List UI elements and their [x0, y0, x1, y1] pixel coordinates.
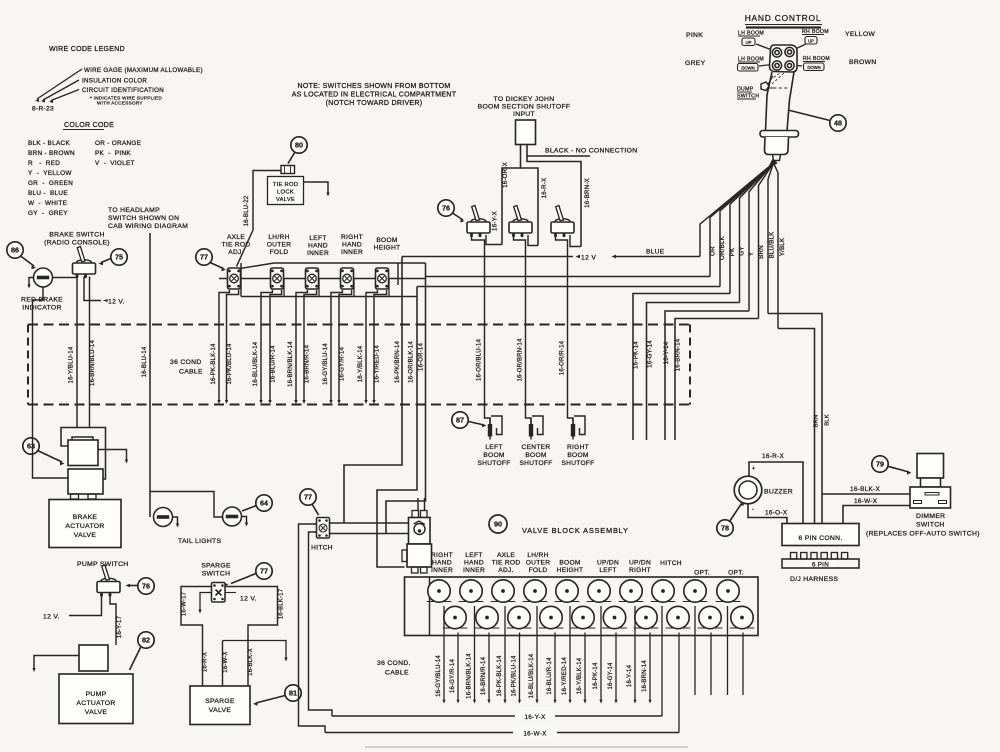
svg-text:16-Y/BLK-14: 16-Y/BLK-14 — [577, 657, 583, 694]
circle 63 brake actuator — [23, 438, 39, 454]
svg-text:75: 75 — [115, 253, 123, 262]
circle 77 hitch switch — [300, 489, 316, 505]
wire 16-GY-14 below valve block — [615, 633, 617, 702]
svg-text:HAND: HAND — [432, 560, 452, 567]
svg-text:77: 77 — [260, 567, 268, 576]
wire brake switch 12V feed — [84, 277, 101, 301]
handle tip — [773, 155, 781, 161]
svg-text:16-W-X: 16-W-X — [523, 731, 547, 738]
svg-text:LEFT: LEFT — [465, 552, 482, 559]
dimmer switch body — [917, 454, 944, 479]
svg-text:OR/BLK: OR/BLK — [719, 235, 726, 260]
wire sparge branch with arrow — [223, 641, 287, 660]
36 cond cable dashed box right — [689, 325, 691, 405]
svg-text:INDICATOR: INDICATOR — [22, 305, 61, 312]
circle 87 boom shutoff — [452, 412, 468, 428]
svg-text:HAND CONTROL: HAND CONTROL — [745, 13, 822, 23]
wire 16-PK/BRN-14 from 12V bus down to hitch — [344, 257, 402, 524]
pump actuator valve box — [59, 674, 133, 724]
wire hitch left to 16-W-X bus — [299, 524, 326, 733]
wire 16-BRN/R-14 below valve block — [488, 633, 490, 702]
36 cond cable dashed box bottom — [28, 404, 690, 406]
wire BRN step to 16-BRN-14 — [675, 319, 759, 441]
wire black no connection stub — [527, 145, 590, 157]
svg-text:NOTE: SWITCHES SHOWN FROM BOT: NOTE: SWITCHES SHOWN FROM BOTTOM — [298, 83, 451, 90]
red brake indicator lamp — [34, 268, 53, 287]
svg-text:HAND: HAND — [464, 560, 484, 567]
svg-text:16-GY/R-14: 16-GY/R-14 — [450, 659, 456, 693]
svg-text:PINK: PINK — [686, 32, 703, 39]
svg-text:LOCK: LOCK — [277, 190, 294, 196]
circle 77 axle tie rod switch — [196, 249, 212, 265]
svg-text:16-BRN/BLU-14: 16-BRN/BLU-14 — [90, 340, 96, 386]
solenoid bottom row 8 — [666, 606, 691, 628]
svg-text:16-R-X: 16-R-X — [762, 453, 784, 460]
svg-text:36 COND.: 36 COND. — [377, 660, 411, 667]
svg-text:BLACK - NO CONNECTION: BLACK - NO CONNECTION — [545, 148, 637, 155]
hitch rocker switch — [317, 518, 330, 539]
svg-text:V - VIOLET: V - VIOLET — [95, 160, 135, 167]
brake actuator solenoid lower — [68, 469, 103, 494]
svg-text:HITCH: HITCH — [311, 545, 333, 552]
handle base — [765, 137, 789, 155]
svg-text:79: 79 — [876, 460, 884, 469]
svg-text:80: 80 — [295, 141, 303, 150]
rocker switch lh/rh outer fold — [271, 268, 284, 289]
svg-text:W - WHITE: W - WHITE — [28, 200, 67, 207]
wire 16-BLU/BLK-14 below valve block — [536, 606, 538, 701]
svg-text:R - RED: R - RED — [28, 160, 60, 167]
svg-text:HEIGHT: HEIGHT — [557, 567, 584, 574]
left boom shutoff connector — [488, 416, 502, 440]
svg-text:CABLE: CABLE — [179, 369, 203, 376]
svg-text:HAND: HAND — [308, 243, 328, 250]
wire opt stub 2 — [710, 633, 712, 696]
svg-text:YELLOW: YELLOW — [845, 31, 875, 38]
solenoid valve stem wires — [418, 498, 425, 511]
svg-text:TIE ROD: TIE ROD — [273, 182, 299, 188]
circle 80 tie rod lock valve — [291, 137, 307, 153]
wire OR horizontal run to switch bus — [426, 276, 711, 278]
svg-text:LEFT: LEFT — [599, 567, 616, 574]
svg-text:16-GY/BLU-14: 16-GY/BLU-14 — [436, 655, 442, 697]
svg-text:PUMP: PUMP — [86, 691, 107, 698]
circle 76 toggle switches — [438, 200, 454, 216]
svg-text:ACTUATOR: ACTUATOR — [76, 700, 115, 707]
svg-text:36 COND: 36 COND — [170, 359, 202, 366]
svg-text:16-BRN/BLK-14: 16-BRN/BLK-14 — [467, 653, 473, 699]
svg-text:VALVE: VALVE — [276, 197, 295, 203]
tie rod lock valve connector — [281, 166, 295, 174]
svg-text:16-OR-14: 16-OR-14 — [419, 343, 425, 371]
svg-text:16-R-X: 16-R-X — [541, 178, 548, 199]
solenoid top row 3 — [491, 580, 516, 602]
wire toggle2 left terminal down to center boom shutoff — [514, 235, 532, 424]
circle 64 tail lights — [256, 495, 272, 511]
wire 16-PK-BLK-14 from switch to cable — [219, 290, 229, 402]
svg-text:90: 90 — [494, 520, 502, 529]
svg-text:16-PK-14: 16-PK-14 — [593, 662, 599, 689]
svg-text:WIRE GAGE (MAXIMUM ALLOWABLE): WIRE GAGE (MAXIMUM ALLOWABLE) — [84, 67, 203, 74]
solenoid valve above block — [402, 511, 432, 574]
wire 16-GY/R-14 from switch to cable — [339, 290, 352, 402]
svg-text:GREY: GREY — [685, 60, 706, 67]
wire 16-BRN/BLU-14 brake switch to actuator — [89, 277, 91, 428]
short vertical at boom height switch right — [397, 263, 399, 285]
switch1 right side vertical — [240, 263, 242, 297]
svg-text:16-PK/BRN-14: 16-PK/BRN-14 — [395, 341, 401, 384]
svg-text:16-R-X: 16-R-X — [203, 652, 209, 672]
brake actuator valve box — [49, 500, 121, 548]
bus through switch row middles — [219, 278, 426, 280]
solenoid top row 7 — [619, 580, 644, 602]
svg-text:TAIL LIGHTS: TAIL LIGHTS — [178, 538, 222, 545]
svg-text:16-W-X: 16-W-X — [854, 498, 878, 505]
6 pin connector box — [782, 524, 859, 546]
toggle switch boom section 3 — [551, 206, 574, 238]
sparge switch rocker — [212, 583, 226, 603]
svg-text:82: 82 — [142, 636, 150, 645]
svg-text:16-BRN-X: 16-BRN-X — [584, 178, 591, 208]
wire pump actuator ground — [34, 656, 79, 670]
svg-text:16-BRN-14: 16-BRN-14 — [675, 338, 682, 371]
wire 16-BRN/R-14 from switch to cable — [304, 290, 317, 402]
svg-text:16-PK-BLK-14: 16-PK-BLK-14 — [211, 343, 217, 385]
wire 16-BLU/R-14 from switch to cable — [270, 290, 282, 402]
wire sparge middle 16-W-X — [222, 641, 224, 687]
svg-text:INNER: INNER — [307, 250, 329, 257]
svg-text:63: 63 — [27, 442, 35, 451]
wire 16-BRN/BLK-14 below valve block — [474, 606, 476, 701]
svg-text:16-GY/BLU-14: 16-GY/BLU-14 — [323, 343, 329, 385]
wire 16-Y/RED-14 below valve block — [569, 606, 571, 701]
wire 16-BLU-22 to axle switch — [237, 171, 282, 267]
brake switch toggle — [73, 247, 96, 279]
svg-text:16-W-X: 16-W-X — [223, 651, 229, 672]
svg-text:LEFT: LEFT — [485, 444, 502, 451]
svg-text:TO HEADLAMP: TO HEADLAMP — [108, 207, 160, 214]
svg-text:6 PIN CONN.: 6 PIN CONN. — [798, 535, 842, 542]
wire opt stub 1 — [694, 606, 696, 695]
bus label 16-W-X — [513, 728, 557, 737]
wire hitch solenoid to 16-Y-X bus — [661, 606, 663, 716]
svg-text:RIGHT: RIGHT — [629, 567, 651, 574]
rocker switch right hand inner — [341, 268, 354, 289]
svg-text:INNER: INNER — [341, 249, 363, 256]
svg-text:AXLE: AXLE — [227, 234, 245, 241]
svg-text:UP/DN: UP/DN — [629, 560, 651, 567]
svg-text:GY: GY — [739, 246, 746, 255]
wire dickey john to 16-OR-X — [502, 145, 521, 245]
svg-text:VALVE: VALVE — [85, 709, 108, 716]
wire PK step to 16-PK-14 — [633, 294, 730, 441]
svg-text:16-BLU/R-14: 16-BLU/R-14 — [547, 657, 553, 695]
svg-text:Y: Y — [748, 252, 755, 256]
wire Y step to 16-Y-14 — [665, 311, 749, 440]
circle 81 sparge valve — [285, 685, 301, 701]
circle 48 hand control — [788, 110, 830, 121]
wire 16-OR-14 down to valve stem — [386, 263, 426, 534]
svg-text:INNER: INNER — [431, 567, 453, 574]
brake actuator bracket — [61, 428, 106, 480]
solenoid top row 4 — [523, 580, 548, 602]
wire 16-Y-17 pump switch to actuator — [110, 595, 116, 645]
wire dickey john to 16-R-X — [521, 168, 539, 246]
handle flange — [760, 131, 799, 138]
svg-text:BOOM: BOOM — [559, 560, 580, 567]
svg-text:DOWN: DOWN — [807, 65, 820, 70]
svg-text:INPUT: INPUT — [513, 111, 535, 118]
tail light right — [223, 507, 242, 526]
6 pin connector pins — [791, 553, 797, 560]
svg-text:16-PK/BLU-14: 16-PK/BLU-14 — [227, 343, 233, 385]
solenoid bottom row 9 — [698, 606, 723, 628]
svg-text:16-BRN-14: 16-BRN-14 — [642, 660, 648, 692]
svg-text:FOLD: FOLD — [529, 567, 548, 574]
toggle switch boom section 2 — [509, 206, 532, 238]
svg-text:12 V.: 12 V. — [240, 596, 257, 603]
svg-text:-: - — [752, 506, 754, 513]
wire 16-PK-14 below valve block — [600, 606, 602, 701]
tail light right ground — [242, 517, 247, 525]
wire 16-PK-BLK-14 below valve block — [504, 606, 506, 701]
legend arrow to circuit identification — [51, 90, 79, 101]
svg-text:PK - PINK: PK - PINK — [95, 150, 131, 157]
valve block outline — [405, 577, 759, 636]
svg-text:16-Y/BLU-14: 16-Y/BLU-14 — [69, 346, 75, 383]
wire pump switch 12V — [69, 595, 102, 616]
svg-text:16-Y-14: 16-Y-14 — [627, 664, 633, 687]
svg-text:16-OR/BRN-14: 16-OR/BRN-14 — [518, 338, 524, 382]
page edge scan artifact — [365, 746, 688, 748]
svg-text:6 PIN: 6 PIN — [812, 562, 829, 569]
svg-text:16-BLU/BLK-14: 16-BLU/BLK-14 — [253, 341, 259, 386]
svg-text:SHUTOFF: SHUTOFF — [561, 460, 594, 467]
wire hitch left to 16-Y-X bus — [309, 532, 333, 716]
svg-text:HAND: HAND — [342, 242, 362, 249]
svg-text:76: 76 — [442, 204, 450, 213]
circle 78 buzzer — [717, 520, 733, 536]
svg-text:BOOM: BOOM — [483, 452, 504, 459]
svg-text:16-GY-14: 16-GY-14 — [647, 340, 654, 368]
svg-text:16-PK-14: 16-PK-14 — [633, 341, 640, 369]
svg-text:16-Y-X: 16-Y-X — [492, 211, 499, 231]
wire dickey john to 16-BRN-X — [527, 156, 581, 247]
wire 16-Y/BLU-14 brake switch to actuator — [76, 277, 78, 428]
circle 90 valve block — [489, 515, 507, 533]
wire GY step to 16-GY-14 — [647, 303, 740, 441]
svg-text:BLU - BLUE: BLU - BLUE — [28, 190, 68, 197]
wire toggle1 left terminal down to left boom shutoff — [472, 235, 491, 424]
svg-text:12 V.: 12 V. — [108, 299, 125, 306]
svg-text:BLK: BLK — [825, 414, 831, 426]
svg-text:8-R-23: 8-R-23 — [32, 106, 54, 113]
bus above switch row — [274, 262, 426, 264]
svg-text:87: 87 — [456, 416, 464, 425]
svg-text:BOOM: BOOM — [525, 452, 546, 459]
svg-text:16-Y-X: 16-Y-X — [524, 714, 546, 721]
wire sparge left loop 16-W-17 — [181, 587, 212, 687]
hand control wire fan — [700, 163, 774, 257]
wire 16-GY/BLU-14 below valve block — [443, 606, 445, 701]
svg-text:SPARGE: SPARGE — [205, 698, 235, 705]
wire brake actuator ground right — [98, 450, 127, 462]
brake actuator tabs — [71, 494, 79, 499]
svg-text:LH/RH: LH/RH — [527, 552, 548, 559]
svg-text:16-PK/BLU-14: 16-PK/BLU-14 — [512, 655, 518, 697]
wire 16-W-X to dimmer — [843, 506, 912, 524]
rocker switch boom height — [376, 268, 389, 289]
wire 16-OR/BLK-14 down to valve stem — [377, 287, 417, 568]
svg-text:DOWN: DOWN — [741, 65, 754, 70]
svg-text:(RADIO CONSOLE): (RADIO CONSOLE) — [44, 240, 110, 247]
svg-text:UP/DN: UP/DN — [597, 560, 619, 567]
svg-text:BUZZER: BUZZER — [764, 489, 793, 496]
wire hitch right bottom — [330, 533, 409, 535]
bus label 16-Y-X — [515, 711, 555, 720]
pump switch toggle — [97, 565, 120, 597]
svg-text:D/J HARNESS: D/J HARNESS — [790, 576, 838, 583]
svg-text:SHUTOFF: SHUTOFF — [477, 460, 510, 467]
dump switch knob — [761, 82, 769, 91]
36 cond cable dashed box left — [27, 325, 29, 405]
svg-text:GR - GREEN: GR - GREEN — [28, 180, 73, 187]
svg-text:16-BLU/BLK-14: 16-BLU/BLK-14 — [529, 653, 535, 698]
wire 16-BRN-14 below valve block — [649, 633, 651, 702]
svg-text:16-BRN/R-14: 16-BRN/R-14 — [481, 656, 487, 695]
svg-text:16-PK-BLK-14: 16-PK-BLK-14 — [497, 655, 503, 697]
svg-text:FOLD: FOLD — [270, 249, 289, 256]
solenoid top row 2 — [459, 580, 484, 602]
svg-text:TIE ROD: TIE ROD — [492, 560, 521, 567]
svg-text:BLU/BLK: BLU/BLK — [769, 231, 776, 259]
svg-text:BOOM SECTION SHUTOFF: BOOM SECTION SHUTOFF — [478, 104, 571, 111]
wire toggle3 left terminal down to right boom shutoff — [556, 235, 574, 424]
legend arrow to insulation color — [43, 80, 79, 100]
wire 16-Y/BLK-14 from switch to cable — [366, 290, 377, 402]
circle 86 red brake indicator — [7, 242, 23, 258]
svg-text:16-Y/RED-14: 16-Y/RED-14 — [375, 345, 381, 383]
rocker switch axle tie rod adj — [228, 268, 241, 289]
12V bus toggle row — [402, 256, 573, 258]
wire 16-O-X buzzer bottom — [748, 504, 787, 524]
svg-text:OR - ORANGE: OR - ORANGE — [95, 140, 141, 147]
wire OR/BLK horizontal run — [417, 286, 720, 288]
solenoid bottom row 1 — [443, 606, 468, 628]
wire 16-PK/BLU-14 below valve block — [519, 633, 521, 702]
svg-text:12 V: 12 V — [581, 255, 596, 262]
svg-text:16-Y/BLK-14: 16-Y/BLK-14 — [358, 345, 364, 382]
svg-text:86: 86 — [11, 246, 19, 255]
wire indicator to brake switch — [53, 277, 77, 279]
svg-text:BOOM: BOOM — [567, 452, 588, 459]
rocker switch left hand inner — [306, 268, 319, 289]
solenoid bottom row 10 — [730, 606, 755, 628]
pump actuator solenoid — [79, 645, 108, 671]
svg-text:CIRCUIT IDENTIFICATION: CIRCUIT IDENTIFICATION — [82, 87, 164, 94]
tail light left — [154, 508, 173, 527]
solenoid top row 8 — [651, 580, 676, 602]
svg-text:BLUE: BLUE — [646, 249, 665, 256]
svg-text:BRN: BRN — [758, 245, 765, 259]
svg-text:CENTER: CENTER — [522, 444, 551, 451]
svg-text:Y/BLK: Y/BLK — [779, 237, 786, 256]
legend arrow to wire gage — [37, 69, 82, 99]
svg-text:16-GY-14: 16-GY-14 — [608, 662, 614, 690]
svg-text:16-BRN/BLK-14: 16-BRN/BLK-14 — [288, 341, 294, 387]
svg-text:HEIGHT: HEIGHT — [374, 245, 401, 252]
hand control head with 4 buttons — [770, 45, 798, 72]
svg-text:16-O-X: 16-O-X — [765, 510, 788, 517]
36 cond cable dashed box top — [28, 324, 690, 326]
svg-text:+: + — [752, 466, 756, 472]
svg-text:(REPLACES OFF-AUTO SWITCH): (REPLACES OFF-AUTO SWITCH) — [866, 531, 980, 538]
6 pin bar — [782, 559, 859, 568]
wire 16-GY/BLU-14 from switch to cable — [331, 290, 342, 402]
svg-text:16-BLK-X: 16-BLK-X — [850, 486, 881, 493]
solenoid top row 1 — [427, 580, 452, 602]
svg-text:VALVE: VALVE — [209, 707, 232, 714]
svg-text:16-BLK-X: 16-BLK-X — [248, 648, 254, 676]
valve block divider — [429, 577, 431, 636]
bus below switch row — [241, 296, 417, 298]
svg-text:ACTUATOR: ACTUATOR — [65, 523, 104, 530]
svg-text:16-Y/RED-14: 16-Y/RED-14 — [562, 657, 568, 695]
svg-text:78: 78 — [721, 524, 729, 533]
svg-text:RIGHT: RIGHT — [431, 552, 453, 559]
svg-text:COLOR CODE: COLOR CODE — [64, 122, 114, 129]
svg-text:OUTER: OUTER — [526, 560, 551, 567]
svg-text:77: 77 — [304, 493, 312, 502]
svg-text:CABLE: CABLE — [385, 670, 409, 677]
wire 16-Y/BLK-14 below valve block — [584, 633, 586, 702]
svg-text:PK: PK — [729, 247, 736, 256]
svg-text:16-BLU/R-14: 16-BLU/R-14 — [271, 345, 277, 383]
wire tie rod valve right stub — [304, 182, 329, 194]
svg-text:16-BLK-17: 16-BLK-17 — [279, 588, 285, 619]
svg-text:LH/RH: LH/RH — [268, 234, 289, 241]
center boom shutoff connector — [529, 416, 543, 440]
wire 16-Y-14 below valve block — [634, 606, 636, 701]
leader lines from button labels to head — [756, 44, 772, 50]
svg-text:77: 77 — [200, 253, 208, 262]
svg-text:LEFT: LEFT — [309, 235, 326, 242]
svg-text:CAB WIRING DIAGRAM: CAB WIRING DIAGRAM — [108, 223, 188, 230]
svg-text:16-Y-14: 16-Y-14 — [663, 341, 670, 364]
svg-text:16-W-17: 16-W-17 — [182, 591, 188, 616]
svg-text:BRN: BRN — [814, 415, 820, 428]
solenoid bottom row 5 — [571, 606, 596, 628]
circle 82 pump actuator — [138, 632, 154, 648]
solenoid bottom row 4 — [539, 606, 564, 628]
bus 16-W-X — [325, 732, 679, 734]
svg-text:12 V.: 12 V. — [43, 614, 60, 621]
svg-text:AS LOCATED IN ELECTRICAL COMPA: AS LOCATED IN ELECTRICAL COMPARTMENT — [292, 92, 457, 99]
svg-text:16-BLU-22: 16-BLU-22 — [244, 195, 250, 226]
svg-text:SHUTOFF: SHUTOFF — [519, 460, 552, 467]
solenoid bottom row 3 — [507, 606, 532, 628]
wire red brake indicator to actuator — [33, 287, 69, 479]
solenoid top row 5 — [555, 580, 580, 602]
svg-text:OUTER: OUTER — [267, 242, 292, 249]
solenoid bottom row 7 — [634, 606, 659, 628]
svg-text:GY - GREY: GY - GREY — [28, 210, 68, 217]
buzzer — [734, 476, 762, 504]
wire toggle1 right terminal jog — [486, 235, 502, 245]
solenoid top row 6 — [587, 580, 612, 602]
svg-text:UP: UP — [808, 38, 814, 43]
solenoid bottom row 6 — [602, 606, 627, 628]
